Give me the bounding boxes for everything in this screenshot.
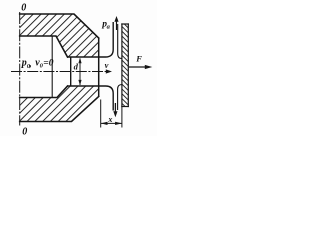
tank top wall outline	[20, 14, 99, 57]
svg-text:x: x	[107, 115, 112, 124]
jet bottom boundary	[68, 86, 114, 111]
svg-text:F: F	[135, 53, 142, 63]
bore entrance section line	[70, 57, 72, 86]
svg-text:=0: =0	[43, 59, 53, 69]
tank bottom wall outline	[20, 86, 99, 122]
jet top boundary	[68, 22, 114, 57]
F arrow	[129, 66, 146, 68]
tank top wall hatch	[20, 14, 99, 57]
label pa (ambient pressure)	[101, 20, 110, 31]
nozzle front face line	[98, 38, 100, 97]
deflected jet arrow up	[116, 22, 118, 31]
x dimension	[100, 100, 102, 128]
interior vertical line	[51, 37, 53, 98]
svg-text:0: 0	[22, 126, 27, 136]
svg-text:0: 0	[21, 2, 26, 13]
tank bottom wall hatch	[20, 86, 99, 122]
deflected jet arrow down	[114, 103, 116, 112]
svg-text:d: d	[74, 62, 79, 72]
label p0, v0=0 (tank state)	[21, 58, 54, 71]
centerline	[11, 71, 106, 73]
v arrow head	[106, 69, 112, 73]
plate	[122, 24, 128, 107]
d dimension arrow	[79, 59, 81, 86]
sheet inner streamline top	[118, 24, 122, 59]
svg-text:v: v	[105, 60, 109, 70]
sheet inner streamline bottom	[118, 85, 122, 111]
section line 0-0	[19, 12, 21, 126]
svg-text:,: ,	[28, 59, 32, 70]
